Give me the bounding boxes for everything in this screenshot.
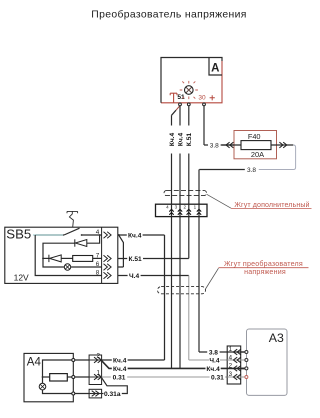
svg-text:3.8: 3.8 [247,167,256,174]
wire label Ч.4 [128,272,141,280]
converter unit A3 box [247,329,288,395]
diode VD1 [74,239,76,246]
leader line to converter harness note [206,268,219,289]
svg-text:Преобразователь напряжения: Преобразователь напряжения [91,8,246,20]
pin contacts of A [179,103,206,106]
resistor in A4 [50,374,68,381]
svg-text:Кч.4: Кч.4 [177,132,184,146]
A3 connector row wires [227,351,246,353]
label box A [209,58,222,76]
svg-text:0.31: 0.31 [113,374,126,381]
svg-text:3: 3 [229,371,233,378]
wire Кч.4 from pin 1 (diagonal) [176,106,180,110]
SB5 pin numbers [96,229,100,277]
SB5 lamp branch [43,258,64,267]
A4 connector box (pins 2,1) [89,355,102,385]
svg-text:Жгут дополнительный: Жгут дополнительный [234,201,309,209]
svg-text:К.51: К.51 [186,133,193,147]
note: Жгут преобразователя напряжения [219,260,309,276]
SB5 connector separator [101,227,103,283]
svg-text:Кч.4: Кч.4 [169,132,176,146]
0.31a pin chevron [92,391,100,397]
A4 pin nodes [72,359,75,396]
wire 0.31 row from A4 pin1 to A3 [102,376,228,378]
svg-text:1: 1 [229,346,233,353]
wire Ч.4 from SB5 pin 8 [118,275,189,277]
svg-text:2: 2 [97,353,101,360]
rotated wire label Кч.4 (c2) [177,126,185,154]
A4 internal wiring [43,360,74,383]
wire label 3.8 [208,141,221,149]
svg-text:А: А [211,62,219,74]
ground (chassis) symbol in box A [170,93,177,103]
svg-text:4: 4 [229,354,233,361]
wire 3.8 vertical c4 [198,190,200,352]
SB5 pin chevrons [104,232,112,279]
pin 2 chevron [94,357,102,363]
wire К.51 from SB5 pin 7 [118,258,189,260]
jumper pin4 to pin6 [118,235,124,267]
A3 pin numbers [229,346,233,378]
svg-text:3.8: 3.8 [209,349,218,356]
indicator lamp HL in box A [180,81,198,99]
lamp in SB5 [64,264,70,270]
svg-text:2: 2 [229,363,233,370]
svg-text:7: 7 [96,253,100,260]
wire label К.51 [127,255,143,263]
lamp in A4 [39,383,46,390]
wire Кч.4 vertical c1 [171,115,173,368]
manual actuator symbol above SB5 [67,211,78,227]
converter unit box A [161,58,222,103]
wire Кч.4 row from A4 pin2 to c0 [102,359,165,361]
junction node [42,258,44,260]
wire 3.8 row to A3 pin1 [199,351,246,353]
svg-text:4: 4 [96,229,100,236]
A3 pin chevrons [233,349,241,380]
wire 0.31 near A3 pin3 [227,376,246,378]
diode VD2 [43,257,49,259]
svg-text:0.31: 0.31 [211,374,224,381]
A3 pin contacts [245,351,248,370]
pin 1 chevron [94,374,102,380]
SB5 internal loop to diode VD1 [43,243,75,258]
wire Кч.4 from SB5 pin 4 [118,234,165,236]
svg-text:8: 8 [96,270,100,277]
svg-text:3.8: 3.8 [210,142,219,149]
svg-text:напряжения: напряжения [244,268,286,276]
pin label 30+ [198,95,214,102]
resistor R in SB5 [73,256,93,262]
svg-text:Кч.4: Кч.4 [113,357,127,364]
wires A4 to connector [75,360,89,394]
wire К.51 vertical c3 [188,106,190,259]
connector strip X (additional harness) [156,204,208,216]
svg-text:Кч.4: Кч.4 [113,366,127,373]
svg-text:F40: F40 [248,132,261,141]
A3 connector box [227,346,241,384]
lamp unit A4 box [24,353,73,401]
wire label Кч.4 [127,231,143,239]
svg-text:А4: А4 [27,357,42,369]
harness marker (stadium) for additional harness [164,190,207,195]
svg-text:Кч.4: Кч.4 [206,366,220,373]
svg-text:1: 1 [97,370,101,377]
rotated wire label Кч.4 (c1) [168,126,176,154]
wire Кч.4 row near A3 pin2 [227,367,246,369]
svg-text:Кч.4: Кч.4 [128,232,142,239]
note: Жгут дополнительный [231,201,312,209]
connector chevrons left of fuse [226,142,233,148]
harness marker (stadium) voltage converter harness [158,287,206,294]
wire Ч.4 row to A3 pin4 [189,359,247,361]
svg-text:12V: 12V [14,272,29,282]
SB5 internal wire V1 to pin 8 [35,235,101,276]
svg-text:0.31а: 0.31а [104,391,121,398]
wire 0.31a from small connector [102,393,104,395]
svg-text:20A: 20A [251,150,264,159]
svg-text:А3: А3 [269,331,284,345]
fuse element F40 [241,141,271,150]
leader line to harness note [207,194,232,208]
strip pin numbers [166,205,197,210]
A4 connector box (0.31a) [89,389,102,398]
wire 30+ to fuse [204,106,234,145]
connector chevrons right of fuse [279,142,286,148]
fuse F40 box [234,131,277,159]
svg-text:Ч.4: Ч.4 [129,273,139,280]
wire Кч.4 second from pin2 (diagonal) to A3 [102,361,228,369]
wire Ч.4 vertical [188,276,190,361]
wire through fuse [222,144,294,146]
wire label 3.8 [245,166,258,174]
strip pin wires [172,204,200,216]
svg-text:Ч.4: Ч.4 [209,357,219,364]
svg-text:К.51: К.51 [128,256,142,263]
wire Кч.4 vertical c2 [179,106,181,369]
svg-text:SB5: SB5 [6,226,31,241]
svg-text:30: 30 [198,95,206,102]
strip pin chevrons [169,209,201,215]
switch unit SB5 box [5,227,118,283]
wire Кч.4 vertical c0 [164,235,166,360]
svg-text:6: 6 [96,261,100,268]
wire 3.8 return from fuse [259,145,296,170]
switch SB5 contact [35,234,64,236]
rotated wire label К.51 (c3) [186,126,194,154]
